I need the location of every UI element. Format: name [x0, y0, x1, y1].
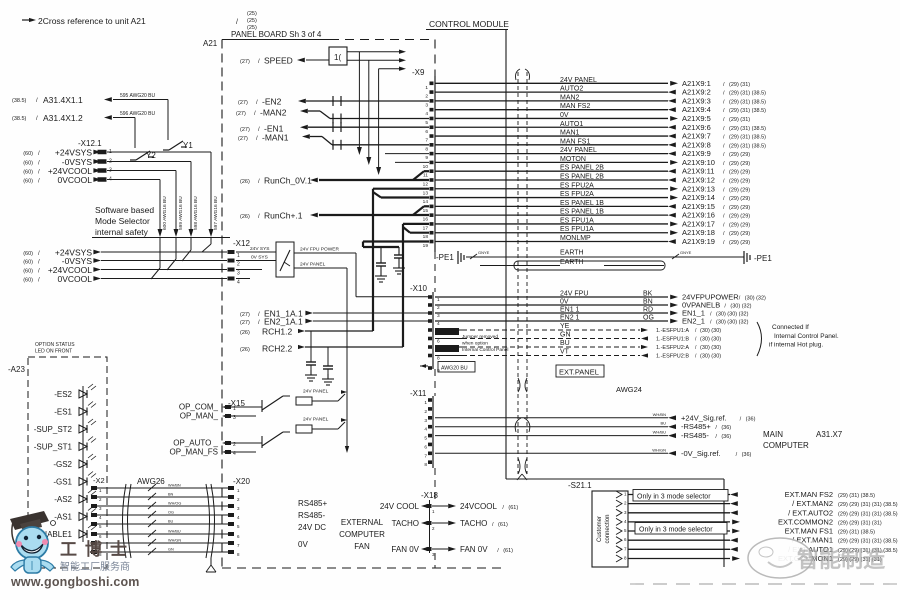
wire +24V_Sig.ref.	[435, 412, 756, 423]
svg-text:-X10: -X10	[410, 284, 427, 293]
svg-text:1: 1	[425, 85, 428, 91]
svg-text:RS485-: RS485-	[298, 511, 325, 520]
svg-text:EXTERNAL: EXTERNAL	[341, 518, 384, 527]
svg-text:(29) (29) (31) (31) (38.5): (29) (29) (31) (31) (38.5)	[838, 511, 898, 517]
svg-text:6: 6	[424, 444, 427, 450]
connector X10	[410, 284, 440, 374]
wire X9 pin 8 MAN FS1	[435, 138, 766, 149]
svg-text:MAN1: MAN1	[560, 130, 580, 137]
svg-text:Internal Control Panel: Internal Control Panel	[462, 347, 508, 353]
connector X9	[412, 68, 435, 252]
svg-text:(25): (25)	[247, 18, 257, 24]
svg-text:BU: BU	[168, 520, 174, 524]
svg-text:-A23: -A23	[8, 365, 25, 374]
svg-text:2: 2	[425, 94, 428, 100]
svg-text:Connected If: Connected If	[772, 324, 809, 331]
svg-text:VT: VT	[560, 349, 570, 356]
svg-text:-EN2: -EN2	[262, 97, 282, 107]
svg-text:599 AWG16 BU: 599 AWG16 BU	[178, 196, 184, 230]
wire X10 pin 2 0V	[435, 299, 752, 310]
LED ENABLE1	[36, 524, 96, 539]
svg-text:RCH2.2: RCH2.2	[262, 344, 293, 354]
svg-text:Mode Selector: Mode Selector	[95, 216, 150, 226]
svg-text:(29) (29): (29) (29)	[729, 214, 750, 220]
svg-text:14: 14	[423, 199, 429, 205]
svg-text:(27): (27)	[240, 59, 250, 65]
svg-text:OG: OG	[168, 511, 174, 515]
svg-text:18: 18	[423, 234, 429, 240]
wire X9 pin 3 MAN2	[435, 94, 766, 105]
amplifier block 1(	[329, 47, 347, 65]
svg-text:5: 5	[424, 436, 427, 442]
wire AWG26 GN	[97, 548, 228, 556]
svg-text:-SUP_ST1: -SUP_ST1	[34, 443, 73, 452]
svg-text:A21X9:1: A21X9:1	[682, 79, 711, 88]
svg-text:EN2_1A.1: EN2_1A.1	[264, 317, 303, 327]
svg-text:-GS1: -GS1	[53, 478, 72, 487]
svg-text:1(: 1(	[334, 53, 341, 62]
svg-text:connection: connection	[605, 514, 611, 543]
wire X9 pin 9 24V PANEL	[435, 147, 750, 158]
wire S21 pin 1 EXT.MAN FS2	[628, 490, 875, 499]
contact ticks EN1	[332, 122, 334, 132]
relay power switch U	[276, 242, 294, 277]
wire EARTH 2	[480, 265, 560, 267]
svg-text:A21X9:10: A21X9:10	[682, 158, 715, 167]
svg-text:(60): (60)	[23, 260, 33, 266]
signal RunCh_0V.1	[240, 171, 429, 185]
svg-text:SPEED: SPEED	[264, 56, 293, 66]
svg-text:-SUP_ST2: -SUP_ST2	[34, 425, 73, 434]
svg-text:(36): (36)	[721, 434, 731, 440]
svg-text:EN1 1: EN1 1	[560, 307, 580, 314]
heavy bus pin 19	[363, 240, 429, 242]
svg-text:ES FPU2A: ES FPU2A	[560, 191, 594, 198]
svg-text:EARTH: EARTH	[560, 259, 584, 266]
wire +24VCOOL	[23, 265, 227, 275]
svg-text:(36): (36)	[746, 416, 756, 422]
PE1 right	[744, 251, 772, 264]
wire X9 pin 6 AUTO1	[435, 121, 766, 132]
svg-text:596 AWG20 BU: 596 AWG20 BU	[120, 111, 155, 117]
wire X12.1 pin2 to 598 AWG16	[107, 161, 191, 163]
svg-text:MAN2: MAN2	[560, 94, 580, 101]
panel board A21 box	[203, 30, 506, 568]
svg-text:0V SYS: 0V SYS	[251, 255, 268, 261]
svg-text:(60): (60)	[23, 179, 33, 185]
svg-text:(30) (30) (32): (30) (30) (32)	[716, 320, 749, 326]
main computer label	[763, 430, 843, 450]
svg-text:(30) (30) (32): (30) (30) (32)	[716, 312, 749, 318]
LED -ES2	[54, 384, 96, 399]
svg-text:A21X9:11: A21X9:11	[682, 167, 714, 176]
svg-text:(36): (36)	[721, 425, 731, 431]
wire X9 pin 15 ES PANEL 1B	[435, 200, 750, 211]
wire X9 pin 13 ES FPU2A	[435, 182, 750, 193]
svg-text:Software based: Software based	[95, 205, 154, 215]
svg-text:Only in 3 mode selector: Only in 3 mode selector	[637, 493, 711, 500]
X15 switch 2	[231, 442, 262, 444]
wire X10 pin 6 GN	[435, 332, 721, 343]
svg-text:595 AWG20 BU: 595 AWG20 BU	[120, 93, 155, 99]
wire X9 pin 11 ES PANEL 2B	[435, 165, 750, 176]
svg-text:(27): (27)	[240, 312, 250, 318]
svg-text:24V DC: 24V DC	[298, 523, 326, 532]
signal -EN2	[238, 97, 429, 107]
svg-text:3: 3	[424, 418, 427, 424]
svg-text:A21X9:3: A21X9:3	[682, 96, 711, 105]
wire X9 pin 16 ES PANEL 1B	[435, 209, 750, 220]
pull-up resistor R2	[296, 417, 347, 434]
svg-text:1.-ESFPU2:A: 1.-ESFPU2:A	[656, 345, 689, 351]
svg-text:Customer: Customer	[597, 516, 603, 542]
svg-text:8: 8	[437, 356, 440, 362]
capacitor C near X9 a	[380, 247, 382, 263]
svg-text:1.-ESFPU1:B: 1.-ESFPU1:B	[656, 337, 689, 343]
svg-text:10: 10	[423, 164, 429, 170]
cable shield right	[206, 484, 210, 558]
wire S21 pin 8 EXT.COMMON1	[628, 554, 882, 563]
svg-text:(29) (29) (31) (31): (29) (29) (31) (31)	[838, 520, 882, 526]
svg-text:智能工厂服务商: 智能工厂服务商	[60, 560, 130, 573]
vertical wire drop c	[378, 69, 380, 170]
svg-text:2: 2	[424, 409, 427, 415]
svg-text:24V PANEL: 24V PANEL	[300, 262, 326, 268]
signal EN1_1A.1	[240, 309, 428, 319]
svg-text:24VCOOL: 24VCOOL	[460, 502, 497, 511]
svg-text:2Cross reference to unit A21: 2Cross reference to unit A21	[38, 16, 146, 26]
svg-text:24V FPU POWER: 24V FPU POWER	[300, 247, 339, 253]
svg-text:24V PANEL: 24V PANEL	[560, 147, 597, 154]
svg-text:OP_MAN_: OP_MAN_	[180, 412, 219, 421]
svg-text:BU: BU	[660, 421, 666, 426]
svg-text:OP_COM_: OP_COM_	[179, 403, 219, 412]
svg-text:(29) (29) (31) (31) (38.5): (29) (29) (31) (31) (38.5)	[838, 539, 898, 545]
svg-text:YE: YE	[560, 323, 570, 330]
svg-text:(29) (29): (29) (29)	[729, 222, 750, 228]
jumper bar 1	[435, 328, 459, 335]
svg-text:ES PANEL 1B: ES PANEL 1B	[560, 209, 604, 216]
wire AWG26 WH/BN	[97, 484, 228, 492]
wire X10 pin 5 YE	[435, 323, 721, 334]
LED -SUP_ST2	[34, 419, 96, 434]
LED -SUP_ST1	[34, 437, 96, 452]
vertical wire drop b	[368, 60, 370, 160]
svg-text:A21X9:4: A21X9:4	[682, 105, 711, 114]
cable screen X11	[515, 418, 521, 432]
svg-text:(29) (31) (38.5): (29) (31) (38.5)	[729, 91, 766, 97]
svg-text:(30) (30): (30) (30)	[700, 328, 721, 334]
svg-text:MAIN: MAIN	[763, 430, 783, 439]
wire jog 4	[159, 238, 161, 269]
wire X9 pin 19 MONLMP	[435, 235, 750, 246]
wire -RS485+	[435, 421, 731, 432]
wire X9 pin 4 MAN FS2	[435, 103, 766, 114]
wire speed out 1	[347, 51, 400, 53]
svg-text:A21X9:9: A21X9:9	[682, 149, 711, 158]
svg-text:(29) (29) (31) (31) (38.5): (29) (29) (31) (31) (38.5)	[838, 502, 898, 508]
AS1 note circle	[51, 521, 56, 526]
wire X9 pin 10 MOTON	[435, 156, 750, 167]
svg-text:(27): (27)	[238, 136, 248, 142]
connector S21.1	[568, 481, 628, 567]
screen twist top	[518, 378, 527, 392]
wire A31.4X1.1	[12, 93, 168, 140]
svg-text:EN2_1: EN2_1	[682, 317, 705, 326]
svg-text:24V PANEL: 24V PANEL	[560, 77, 597, 84]
svg-text:RunCh_0V.1: RunCh_0V.1	[264, 176, 312, 186]
wire jog 1	[210, 238, 212, 245]
svg-text:Internal Control Panel.: Internal Control Panel.	[774, 333, 839, 340]
X20 signal names	[298, 499, 327, 549]
wire AWG26 WH/OG	[97, 502, 228, 510]
svg-text:(61): (61)	[508, 505, 518, 511]
wire speed out 3	[379, 68, 400, 70]
svg-text:www.gongboshi.com: www.gongboshi.com	[10, 575, 140, 589]
svg-text:/ EXT.AUTO2: / EXT.AUTO2	[788, 508, 833, 517]
svg-text:(61): (61)	[498, 522, 508, 528]
connector X18	[380, 491, 518, 557]
svg-text:WH/BU: WH/BU	[653, 430, 666, 435]
wire X9 pin 7 MAN1	[435, 130, 766, 141]
svg-text:(36): (36)	[742, 452, 752, 458]
wire S21 pin 7 / EXT.AUTO1	[628, 545, 898, 554]
wire X9 pin 17 ES FPU1A	[435, 217, 750, 228]
wire -0V_Sig.ref.	[435, 447, 752, 458]
svg-text:(60): (60)	[23, 151, 33, 157]
svg-text:(61): (61)	[503, 548, 513, 554]
svg-text:FAN: FAN	[354, 542, 370, 551]
svg-text:RD: RD	[643, 307, 653, 314]
svg-text:(29) (31) (38.5): (29) (31) (38.5)	[729, 126, 766, 132]
AWG20 BU box	[438, 362, 475, 373]
svg-text:BU: BU	[560, 340, 570, 347]
svg-text:Only in 3 mode selector: Only in 3 mode selector	[639, 526, 713, 533]
junction arrows on safety line	[158, 229, 163, 237]
svg-text:BN: BN	[168, 493, 174, 497]
svg-text:if internal Hot plug.: if internal Hot plug.	[769, 342, 823, 349]
heavy bus pins 17-18	[403, 223, 429, 225]
signal -EN1	[240, 124, 429, 134]
svg-text:4: 4	[437, 321, 440, 327]
svg-text:智能制造: 智能制造	[797, 547, 885, 572]
svg-text:GN: GN	[168, 548, 174, 552]
svg-text:5: 5	[425, 120, 428, 126]
svg-text:24V FPU: 24V FPU	[560, 291, 588, 298]
software mode selector note	[92, 205, 230, 238]
svg-text:WH/BU: WH/BU	[168, 530, 181, 534]
svg-text:0V: 0V	[560, 112, 569, 119]
svg-text:17: 17	[423, 225, 429, 231]
svg-text:0V: 0V	[560, 299, 569, 306]
svg-text:TACHO: TACHO	[392, 519, 419, 528]
svg-text:-RS485+: -RS485+	[681, 422, 711, 431]
page border dashes	[630, 583, 900, 585]
svg-text:OP_AUTO _: OP_AUTO _	[173, 439, 218, 448]
svg-text:EN2 1: EN2 1	[560, 315, 580, 322]
svg-text:(29) (31): (29) (31)	[729, 117, 750, 123]
svg-text:-S21.1: -S21.1	[568, 481, 592, 490]
svg-text:ES FPU1A: ES FPU1A	[560, 217, 594, 224]
svg-text:EXT.COMMON2: EXT.COMMON2	[778, 517, 833, 526]
shield drain gnd	[210, 558, 212, 565]
svg-text:24V PANEL: 24V PANEL	[303, 389, 329, 395]
svg-text:24V SYS: 24V SYS	[250, 246, 269, 252]
heavy bus pins 13-14	[373, 188, 429, 190]
external computer fan label	[339, 518, 385, 551]
svg-text:TACHO: TACHO	[460, 519, 487, 528]
signal RunCh+.1	[240, 206, 429, 220]
svg-text:GN: GN	[560, 332, 571, 339]
wire S21 pin 3 / EXT.AUTO2	[628, 508, 898, 517]
svg-text:1.-ESFPU2:B: 1.-ESFPU2:B	[656, 354, 689, 360]
cable screen X9	[517, 72, 519, 474]
svg-text:internal safety: internal safety	[95, 227, 149, 237]
svg-text:EXT.MAN FS2: EXT.MAN FS2	[785, 490, 833, 499]
svg-text:(60): (60)	[23, 170, 33, 176]
connector X2	[91, 476, 105, 557]
svg-text:12: 12	[423, 181, 429, 187]
svg-text:(60): (60)	[23, 278, 33, 284]
svg-text:1: 1	[424, 400, 427, 406]
wire X9 pin 18 ES FPU1A	[435, 226, 750, 237]
cross reference note to unit A21	[22, 11, 257, 31]
svg-text:(26): (26)	[240, 179, 250, 185]
svg-text:AWG26: AWG26	[137, 477, 165, 486]
svg-text:3: 3	[437, 313, 440, 319]
svg-text:597 AWG16 BU: 597 AWG16 BU	[213, 196, 219, 230]
svg-text:-MAN1: -MAN1	[262, 133, 289, 143]
svg-text:11: 11	[423, 173, 428, 179]
svg-text:8: 8	[424, 462, 427, 468]
svg-text:OPTION STATUS: OPTION STATUS	[35, 342, 75, 348]
svg-text:A21X9:6: A21X9:6	[682, 123, 711, 132]
svg-text:0VCOOL: 0VCOOL	[58, 175, 93, 185]
wire 0V SYS	[236, 260, 276, 262]
svg-text:AWG24: AWG24	[616, 385, 642, 394]
svg-text:9: 9	[425, 155, 428, 161]
svg-text:(25): (25)	[247, 11, 257, 17]
svg-text:(27): (27)	[240, 320, 250, 326]
svg-text:-MAN2: -MAN2	[260, 108, 287, 118]
svg-text:/ EXT.MAN2: / EXT.MAN2	[792, 499, 833, 508]
svg-text:(26): (26)	[240, 347, 250, 353]
svg-text:WH/OG: WH/OG	[168, 502, 181, 506]
pull-up resistor R1	[296, 389, 347, 406]
wire S21 pin 6 / EXT.MAN1	[628, 536, 898, 545]
svg-text:MAN FS2: MAN FS2	[560, 103, 590, 110]
connected-if note	[757, 322, 762, 356]
svg-text:(29) (31) (38.5): (29) (31) (38.5)	[729, 99, 766, 105]
svg-text:GNYE: GNYE	[478, 250, 490, 255]
wire X10 pin 1 24V FPU	[435, 291, 766, 302]
signal RCH1.2	[240, 327, 373, 337]
svg-text:MONLMP: MONLMP	[560, 235, 591, 242]
wire EARTH 1	[466, 256, 744, 258]
wire speed out 2	[347, 59, 400, 61]
wire X9 pin 1 24V PANEL	[435, 77, 750, 88]
watermark right	[748, 538, 885, 578]
wire -RS485-	[435, 430, 731, 441]
signal SPEED	[240, 56, 329, 66]
svg-text:24V COOL: 24V COOL	[380, 502, 420, 511]
wire AWG26 BU	[97, 520, 228, 528]
svg-text:-X20: -X20	[233, 477, 250, 486]
svg-text:(30) (30): (30) (30)	[700, 345, 721, 351]
svg-text:(27): (27)	[240, 127, 250, 133]
svg-text:AUTO1: AUTO1	[560, 121, 583, 128]
wire X12.1 pin3 to 599 AWG16	[107, 170, 176, 172]
svg-text:-0V_Sig.ref.: -0V_Sig.ref.	[681, 449, 721, 458]
cable shield left	[123, 484, 127, 558]
wire 24VCOOL	[380, 502, 518, 514]
LED -ES1	[54, 402, 96, 417]
wire A31.4X1.2	[12, 111, 155, 148]
svg-text:-X12: -X12	[233, 239, 250, 248]
svg-text:RS485+: RS485+	[298, 499, 327, 508]
svg-text:(29) (29): (29) (29)	[729, 231, 750, 237]
svg-text:Y2: Y2	[146, 151, 156, 160]
wire X12.1 pin1 to 597 AWG16	[107, 151, 211, 153]
LED chain line	[82, 386, 84, 542]
svg-text:ES PANEL 2B: ES PANEL 2B	[560, 173, 604, 180]
svg-text:(29) (29): (29) (29)	[729, 152, 750, 158]
svg-text:7: 7	[425, 138, 428, 144]
signal -MAN2	[236, 108, 429, 119]
panel edge segment c	[434, 468, 436, 500]
wire 24V FPU POWER	[294, 252, 356, 254]
svg-text:ES FPU2A: ES FPU2A	[560, 182, 594, 189]
contact ticks EN2	[332, 96, 334, 106]
control module boundary	[426, 19, 724, 567]
screen twist bottom	[517, 458, 527, 480]
svg-text:(60): (60)	[23, 251, 33, 257]
svg-text:(30) (30): (30) (30)	[700, 337, 721, 343]
svg-text:(29) (31) (38.5): (29) (31) (38.5)	[729, 143, 766, 149]
svg-text:(29) (31): (29) (31)	[729, 82, 750, 88]
jumper note	[462, 334, 508, 353]
svg-text:1.-ESFPU1:A: 1.-ESFPU1:A	[656, 328, 689, 334]
svg-text:-X9: -X9	[412, 68, 425, 77]
svg-text:WH/GN: WH/GN	[168, 539, 181, 543]
svg-text:OP_MAN_FS: OP_MAN_FS	[170, 448, 218, 457]
only in 3 mode selector box 2	[635, 523, 727, 535]
svg-text:(30) (32): (30) (32)	[745, 296, 766, 302]
wire X12 pin3 stub	[236, 269, 262, 271]
svg-text:OG: OG	[643, 315, 654, 322]
svg-text:(27): (27)	[238, 100, 248, 106]
svg-text:ES PANEL 1B: ES PANEL 1B	[560, 200, 604, 207]
svg-text:WH/BN: WH/BN	[168, 484, 181, 488]
wire X10 pin 7 BU	[435, 340, 721, 351]
svg-text:-ES1: -ES1	[54, 408, 72, 417]
svg-text:8: 8	[425, 146, 428, 152]
svg-text:(26): (26)	[240, 214, 250, 220]
svg-text:(60): (60)	[23, 161, 33, 167]
wire X10 pin 3 EN1 1	[435, 307, 749, 318]
svg-text:A31.4X1.2: A31.4X1.2	[43, 113, 83, 123]
svg-text:(30) (30): (30) (30)	[700, 354, 721, 360]
panel edge segment d	[434, 553, 436, 568]
svg-text:6: 6	[425, 129, 428, 135]
svg-text:19: 19	[423, 243, 429, 249]
wire AWG26 OG	[97, 511, 228, 519]
svg-text:(29) (29): (29) (29)	[729, 187, 750, 193]
svg-text:A21X9:15: A21X9:15	[682, 202, 715, 211]
capacitor C near X9 b	[398, 247, 400, 255]
wire S21 pin 2 / EXT.MAN2	[628, 499, 898, 508]
svg-text:(29) (29): (29) (29)	[729, 161, 750, 167]
